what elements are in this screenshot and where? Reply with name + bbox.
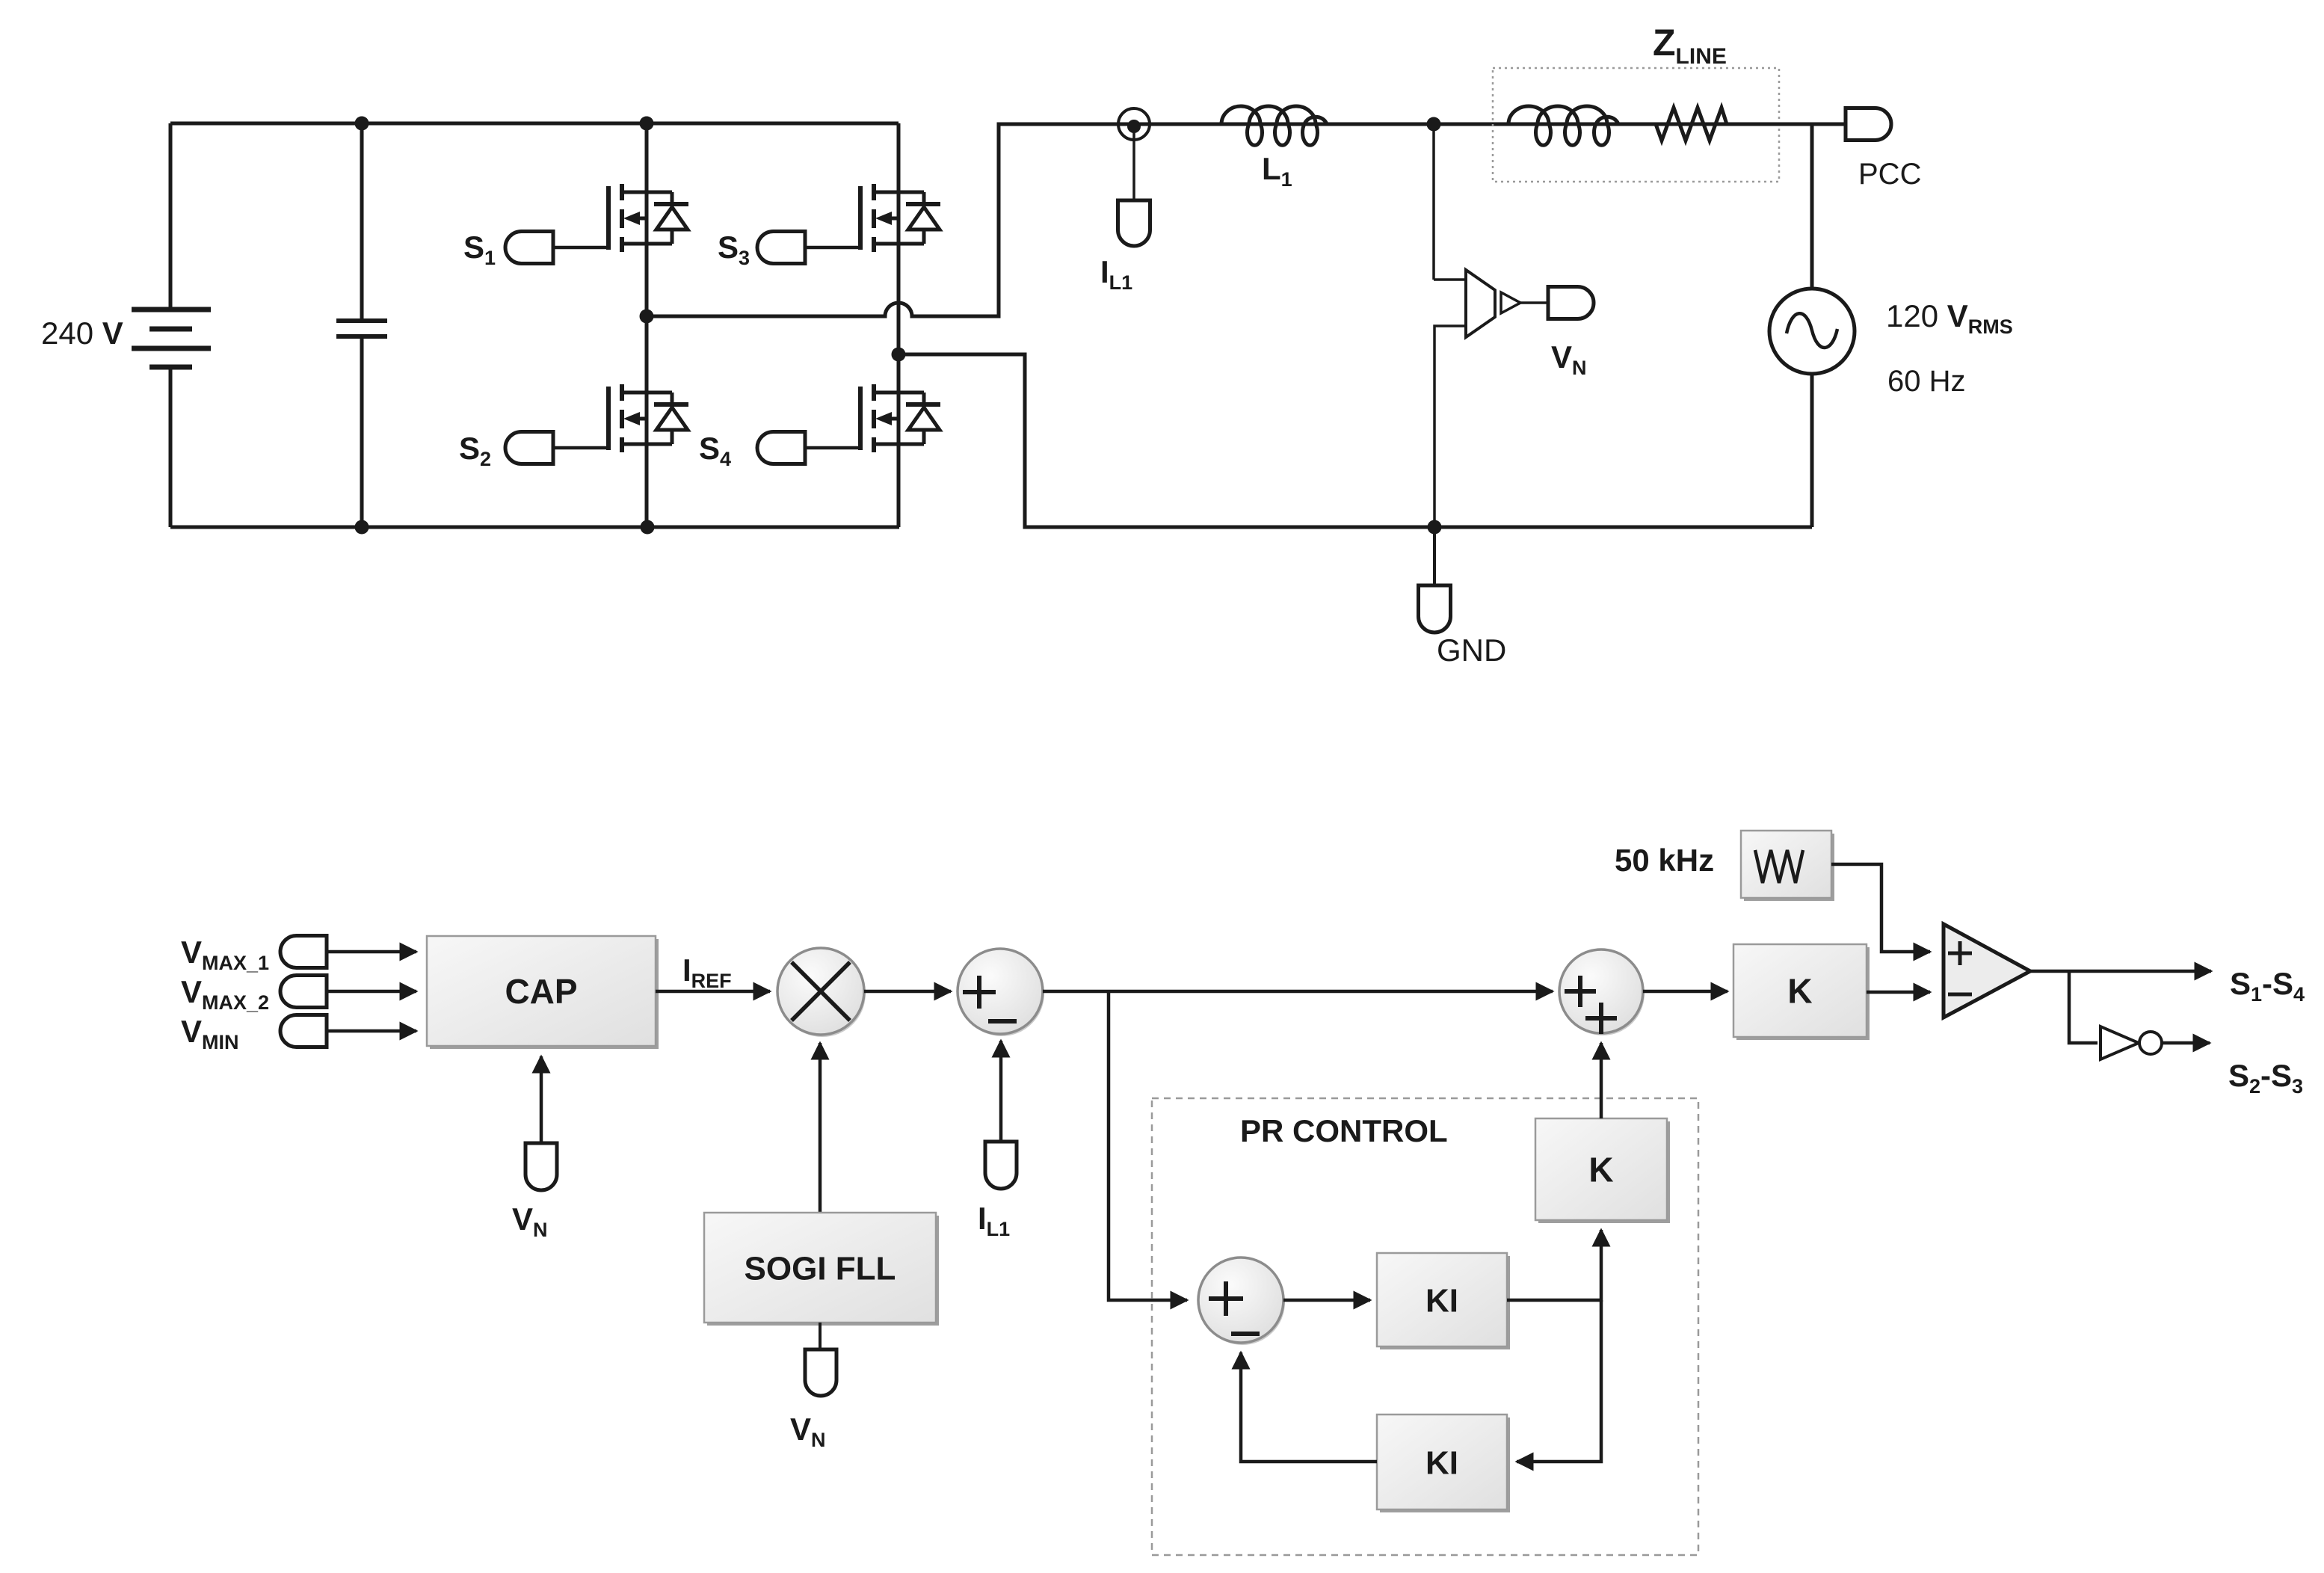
node top rail / capacitor <box>355 117 369 131</box>
wire S1-S2 leg <box>645 123 649 192</box>
wire VMAX_2 to CAP <box>327 990 416 994</box>
node bottom rail / S2 source <box>641 520 655 535</box>
wire multiplier to summer1 <box>864 990 951 994</box>
svg-text:PR CONTROL: PR CONTROL <box>1240 1113 1448 1148</box>
summer3 <box>1198 1258 1285 1345</box>
transistor S4 <box>860 384 940 452</box>
wire S2 gate <box>553 446 607 450</box>
svg-text:240 V: 240 V <box>41 315 123 351</box>
svg-text:K: K <box>1787 972 1812 1011</box>
node A bridge midpoint S1-S2 <box>640 310 654 324</box>
wire IL1 probe to summer1 <box>999 1041 1003 1142</box>
wire top rail <box>170 122 899 126</box>
probe VN sensor <box>1548 287 1594 319</box>
probe VN under SOGI <box>805 1349 836 1396</box>
wire battery left side <box>169 123 173 307</box>
block CAP <box>430 939 659 1049</box>
comparator <box>1944 924 2030 1018</box>
sawtooth source block <box>1741 831 1834 901</box>
svg-text:SOGI FLL: SOGI FLL <box>745 1250 896 1287</box>
wire S1 gate <box>553 246 607 250</box>
summer2 <box>1559 949 1645 1035</box>
transistor S3 <box>860 184 940 252</box>
gate probe S2 <box>505 432 553 464</box>
probe IL1 control <box>985 1142 1017 1189</box>
svg-text:50 kHz: 50 kHz <box>1615 843 1714 878</box>
wire SOGI FLL to multiplier <box>819 1043 822 1213</box>
summer1 <box>958 949 1044 1036</box>
wire branch to PR control <box>1109 991 1187 1300</box>
svg-text:KI: KI <box>1425 1282 1458 1319</box>
block KI top <box>1380 1256 1510 1349</box>
node top rail / S1 drain <box>640 117 654 131</box>
node B bridge midpoint S3-S4 <box>892 348 906 362</box>
svg-text:KI: KI <box>1425 1444 1458 1481</box>
battery 240V <box>132 310 211 367</box>
svg-text:PCC: PCC <box>1858 158 1921 191</box>
Zline dashed box <box>1493 68 1779 182</box>
svg-text:K: K <box>1588 1151 1613 1189</box>
VN sensor <box>1434 124 1548 527</box>
ac source 120V 60Hz <box>1769 124 1855 527</box>
block K inside PR <box>1538 1121 1670 1223</box>
gate probe S1 <box>505 232 553 264</box>
wire summer3 to KI <box>1283 1299 1370 1302</box>
block K main <box>1736 947 1870 1040</box>
probe VMAX_1 <box>280 936 327 968</box>
wire K to comparator <box>1867 991 1930 994</box>
wire branch to NOT gate <box>2069 971 2098 1043</box>
wire S4 gate <box>805 446 859 450</box>
wire VMIN to CAP <box>327 1029 416 1033</box>
probe PCC <box>1846 108 1891 141</box>
wire K to summer2 <box>1600 1043 1603 1118</box>
wire bottom rail <box>170 526 899 529</box>
gate probe S4 <box>757 432 805 464</box>
wire CAP to multiplier <box>656 990 770 994</box>
svg-text:GND: GND <box>1437 632 1506 668</box>
wire KI to K <box>1507 1230 1601 1300</box>
wire NOT gate output S2-S3 <box>2162 1041 2210 1045</box>
wire resistor to PCC <box>1727 123 1846 126</box>
multiplier X <box>777 948 866 1037</box>
wire VMAX_1 to CAP <box>327 950 416 954</box>
wire GND stub <box>1433 527 1436 585</box>
block KI bottom <box>1380 1417 1510 1512</box>
gate probe S3 <box>757 232 805 264</box>
wire summer2 to K block <box>1643 990 1727 994</box>
wire VN probe to CAP <box>540 1056 543 1143</box>
resistor Zline <box>1656 108 1727 141</box>
inductor L1 <box>1221 106 1327 145</box>
wire comparator output S1-S4 <box>2030 970 2211 973</box>
svg-text:60 Hz: 60 Hz <box>1887 365 1966 398</box>
wire sawtooth to comparator <box>1831 864 1930 952</box>
probe VMIN <box>280 1015 327 1047</box>
node bottom rail / capacitor <box>355 520 369 535</box>
transistor S1 <box>608 184 688 252</box>
wire neutral return <box>899 354 1812 527</box>
probe IL1 <box>1118 200 1150 246</box>
probe VMAX_2 <box>280 976 327 1008</box>
probe VN under CAP <box>525 1143 557 1190</box>
wire SOGI VN stub <box>819 1323 822 1351</box>
NOT gate <box>2100 1026 2162 1059</box>
wire KI2 to summer3 <box>1241 1352 1377 1462</box>
transistor S2 <box>608 384 688 452</box>
wire summer1 to summer2 <box>1043 990 1553 994</box>
capacitor C1 <box>336 123 387 527</box>
wire Zline inductor-resistor <box>1618 123 1656 126</box>
wire S3 gate <box>805 246 859 250</box>
svg-text:CAP: CAP <box>505 972 577 1011</box>
inductor Zline <box>1508 106 1618 145</box>
current sensor ring IL1 <box>1118 108 1150 200</box>
node neutral / GND <box>1428 520 1442 535</box>
PR control dashed box <box>1152 1098 1698 1555</box>
block SOGI FLL <box>707 1216 939 1326</box>
wire junction down to KI2 <box>1517 1300 1601 1462</box>
ground GND probe <box>1419 585 1451 632</box>
wire bridge output with hop over S3-S4 leg <box>647 124 1812 316</box>
wire S3-S4 leg <box>897 123 901 192</box>
node L1 / Zline / VN tap <box>1427 117 1441 132</box>
